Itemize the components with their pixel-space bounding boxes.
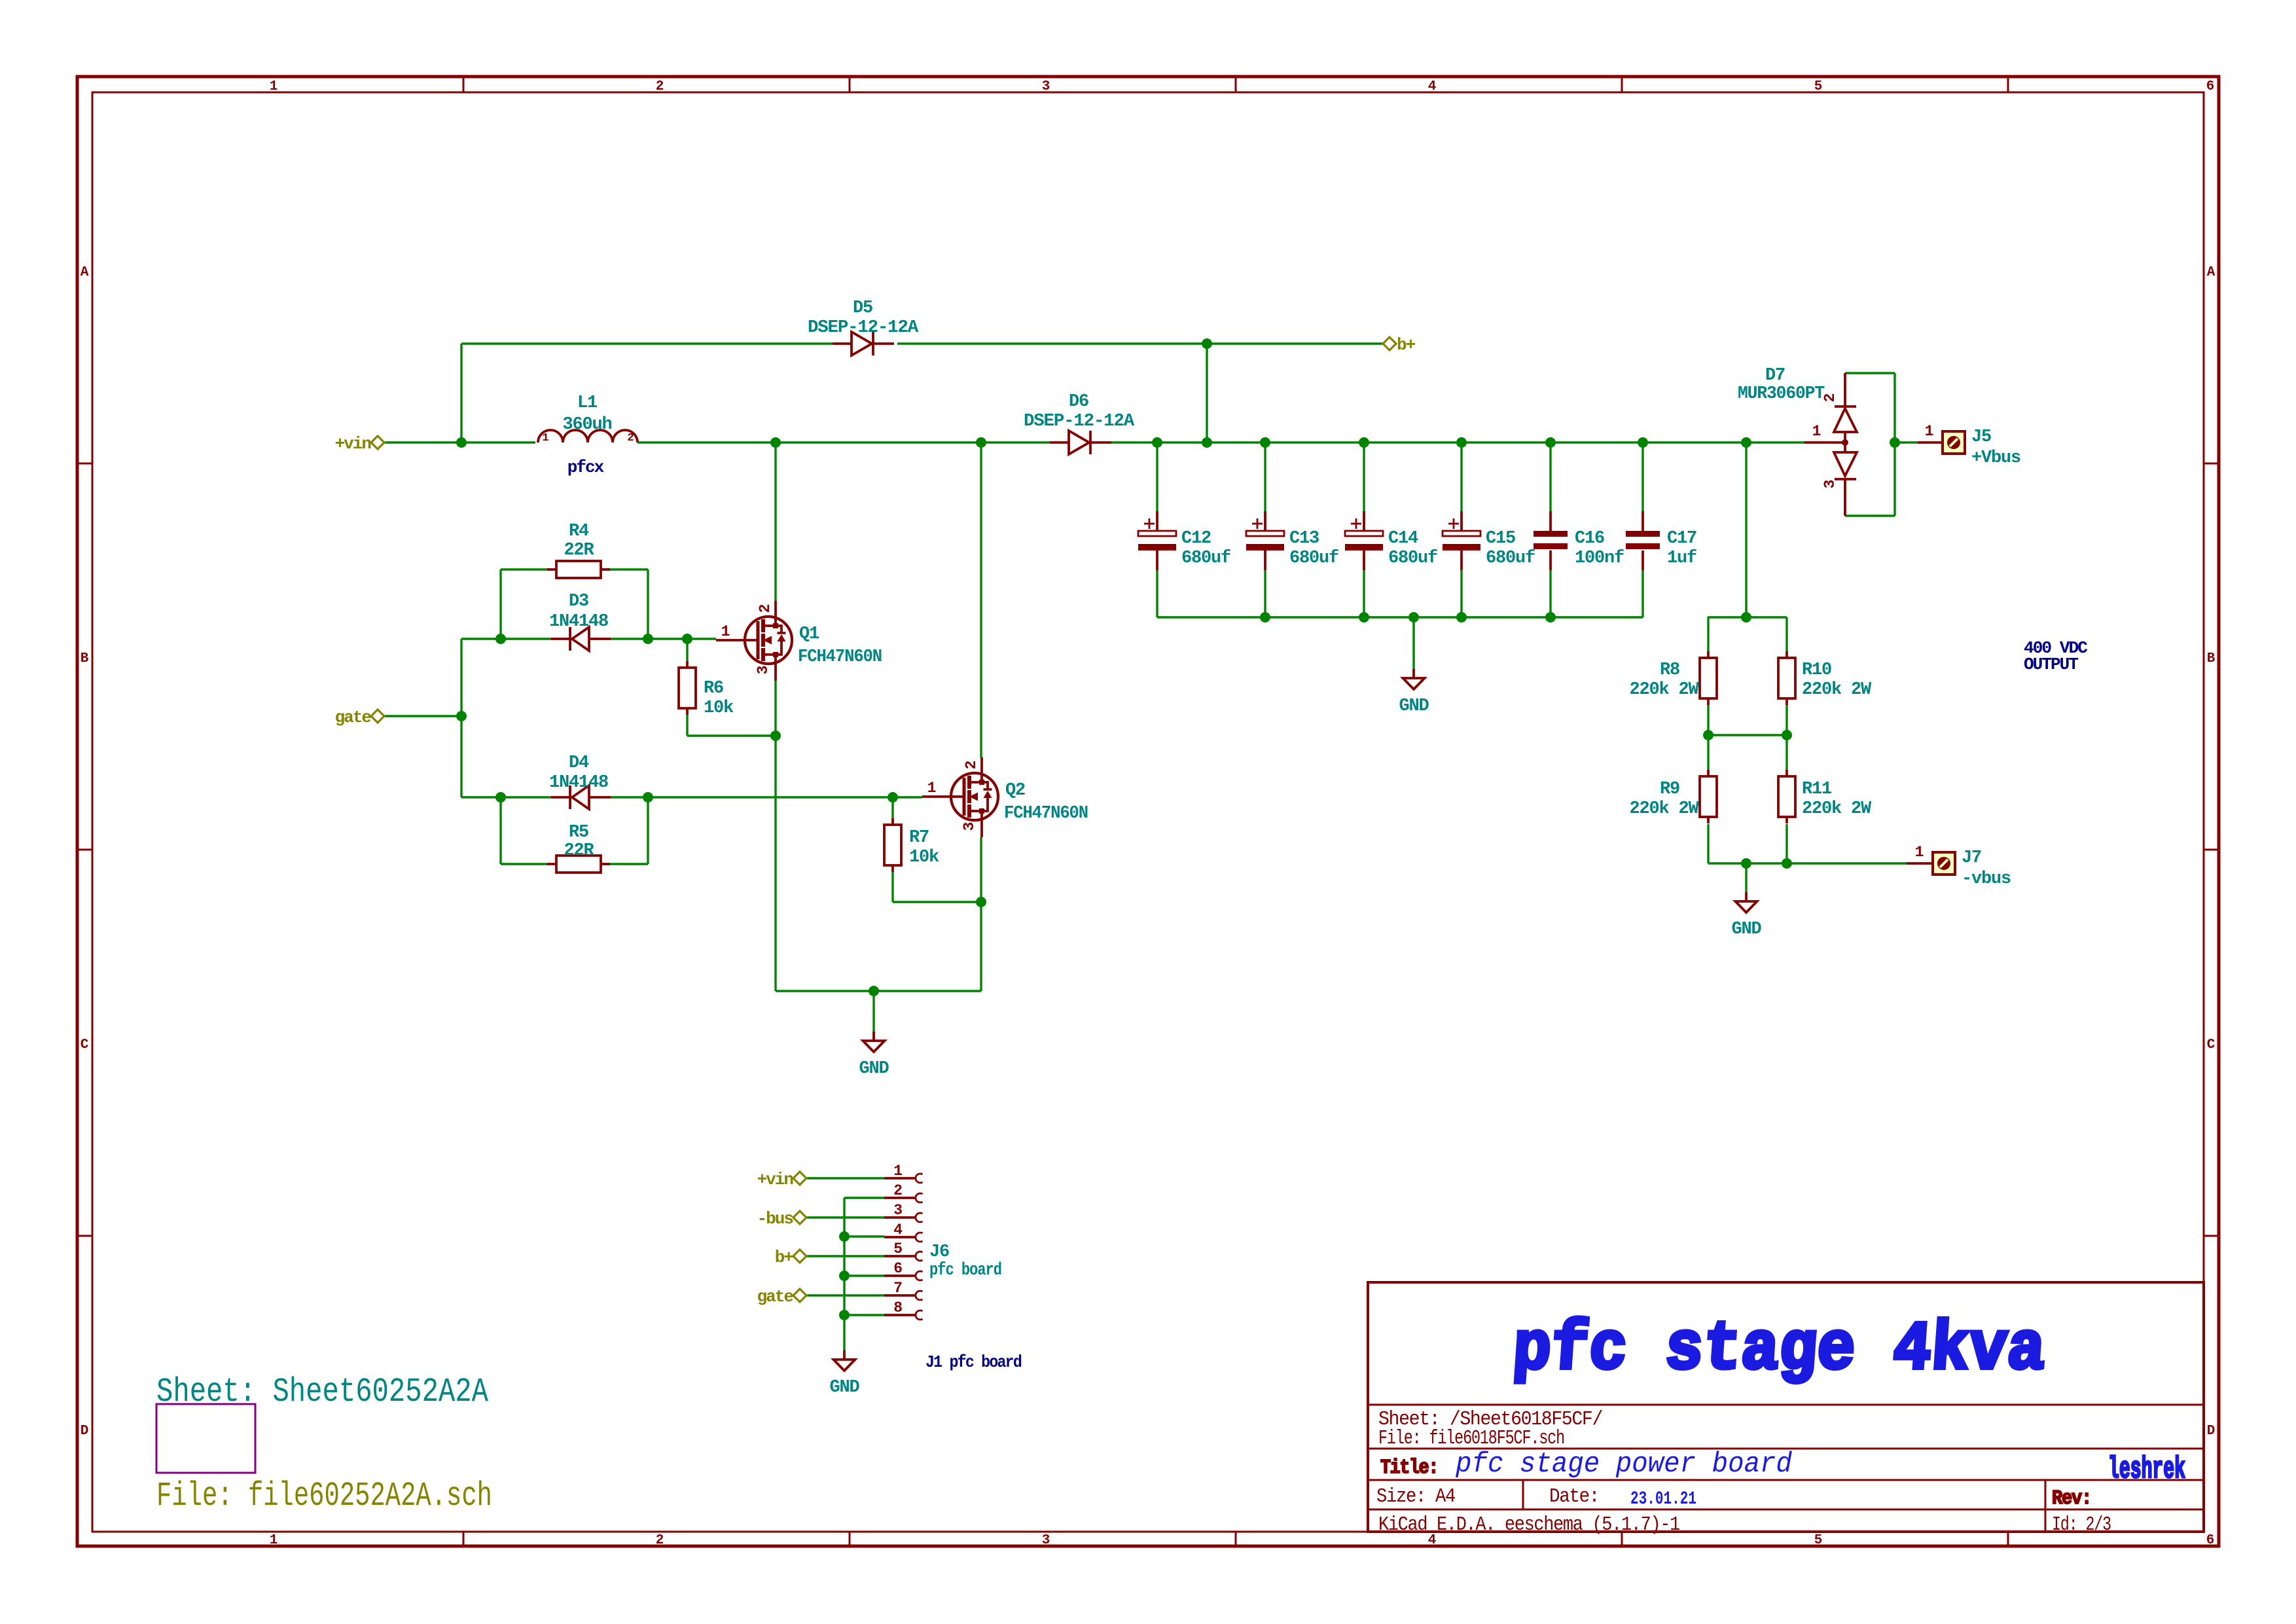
ground under divider (1736, 892, 1757, 912)
svg-text:Sheet: Sheet60252A2A: Sheet: Sheet60252A2A (156, 1373, 489, 1411)
svg-text:pfc stage power board: pfc stage power board (1455, 1448, 1792, 1481)
svg-text:Date:: Date: (1549, 1485, 1599, 1508)
connector J5 (1918, 431, 1965, 454)
wire R5 right lead (607, 863, 648, 865)
wire gate row 2 to D4 (461, 796, 551, 798)
svg-text:680uf: 680uf (1486, 549, 1535, 568)
global label gate (J6) (757, 1287, 806, 1307)
wire C bottom lead x=2084 (1363, 570, 1365, 617)
capacitor C13 (1246, 511, 1284, 570)
svg-text:Id: 2/3: Id: 2/3 (2052, 1513, 2111, 1536)
svg-text:220k 2W: 220k 2W (1802, 680, 1872, 700)
wire Q1 source down (774, 681, 776, 991)
diode D6 (1050, 431, 1111, 454)
ground under J6 (834, 1350, 855, 1371)
svg-text:4: 4 (1428, 79, 1437, 94)
junction main bus x=1499 (976, 437, 986, 448)
svg-text:C12: C12 (1181, 529, 1211, 549)
svg-text:1N4148: 1N4148 (549, 773, 608, 793)
wire +vin to J6 pin1 (806, 1177, 884, 1179)
J6 pin 6 (884, 1271, 923, 1280)
junction cap bottom rail x=2084 (1359, 612, 1369, 623)
svg-text:-bus: -bus (757, 1209, 794, 1229)
J6 pin 4 (884, 1233, 923, 1242)
wire divider bottom rail to J7 (1708, 862, 1907, 864)
svg-text:R4: R4 (569, 522, 589, 541)
svg-text:5: 5 (1814, 1533, 1823, 1548)
svg-text:Q2: Q2 (1005, 781, 1025, 801)
svg-text:A: A (2207, 265, 2215, 280)
svg-text:7: 7 (893, 1280, 902, 1297)
ground under capacitor bank (1403, 669, 1425, 689)
transistor Q2 (922, 757, 998, 837)
svg-text:leshrek: leshrek (2108, 1453, 2185, 1487)
wire R8 top lead (1707, 617, 1709, 651)
wire J6 pin2 lead (844, 1197, 884, 1199)
wire C top lead x=2084 (1363, 442, 1365, 511)
wire R6 top lead (686, 639, 688, 661)
diode D4 (551, 785, 611, 809)
capacitor C17 (1626, 511, 1660, 570)
svg-text:6: 6 (893, 1260, 902, 1277)
frame column tick x=708 bottom (463, 1532, 465, 1546)
wire R8 bottom lead (1707, 705, 1709, 735)
wire R9 bottom lead (1707, 824, 1709, 863)
wire gate label to rail (384, 715, 461, 717)
svg-text:b+: b+ (775, 1248, 794, 1267)
wire b+ rail left of D5 (461, 342, 833, 344)
resistor R10 (1778, 651, 1795, 705)
junction main bus x=2369 (1545, 437, 1556, 448)
global label b+ (1383, 335, 1416, 355)
junction R6 top node (682, 634, 692, 644)
svg-text:1: 1 (270, 79, 278, 94)
svg-text:DSEP-12-12A: DSEP-12-12A (808, 318, 919, 338)
svg-text:22R: 22R (564, 841, 594, 861)
svg-text:10k: 10k (909, 848, 939, 867)
svg-text:1: 1 (927, 780, 936, 797)
svg-text:gate: gate (335, 708, 372, 727)
wire +vin to L1 (384, 441, 535, 443)
svg-text:D5: D5 (853, 298, 872, 318)
svg-text:gate: gate (757, 1287, 794, 1307)
wire divider top rail (1708, 616, 1787, 618)
svg-text:2: 2 (656, 1533, 664, 1548)
wire R7 to Q2 source (893, 901, 981, 903)
svg-text:2: 2 (757, 604, 774, 613)
junction main bus x=705 (456, 437, 467, 448)
junction D7 output node (1890, 437, 1900, 448)
wire C bottom lead x=1933 (1264, 570, 1266, 617)
global label b+ (J6) (775, 1248, 806, 1267)
J6 pin 7 (884, 1291, 923, 1300)
wire L1 to D6 (637, 441, 1050, 443)
frame row tick y=1298 right (2204, 849, 2219, 851)
svg-text:Size: A4: Size: A4 (1376, 1485, 1456, 1508)
svg-text:C16: C16 (1575, 529, 1604, 549)
wire R4 left lead (501, 568, 550, 570)
svg-text:1: 1 (893, 1163, 902, 1180)
wire R11 bottom lead (1785, 824, 1787, 863)
svg-text:680uf: 680uf (1388, 549, 1437, 568)
junction J6 pin6 node (839, 1271, 850, 1281)
svg-text:3: 3 (893, 1202, 902, 1219)
wire R6 bottom lead (686, 715, 688, 736)
svg-text:D7: D7 (1765, 366, 1785, 386)
svg-text:pfcx: pfcx (567, 458, 604, 477)
svg-text:pfc stage 4kva: pfc stage 4kva (1511, 1310, 2048, 1389)
junction cap bottom rail x=1933 (1260, 612, 1270, 623)
svg-text:1: 1 (270, 1533, 278, 1548)
wire C top lead x=2233 (1460, 442, 1462, 511)
svg-text:MUR3060PT: MUR3060PT (1738, 384, 1825, 404)
frame row tick y=1298 left (77, 849, 92, 851)
svg-text:GND: GND (1731, 920, 1761, 939)
transistor Q1 (716, 601, 792, 681)
svg-text:R8: R8 (1660, 660, 1679, 680)
svg-text:22R: 22R (564, 541, 594, 560)
junction D4 left node (495, 792, 506, 803)
junction main bus x=1933 (1260, 437, 1270, 448)
svg-text:J7: J7 (1962, 848, 1981, 868)
junction source rail GND node (869, 986, 879, 996)
wire b+ to J6 pin5 (806, 1255, 884, 1257)
wire source rail to GND (776, 990, 981, 992)
svg-text:D: D (2207, 1424, 2215, 1439)
frame row tick y=708 left (77, 463, 92, 465)
svg-text:pfc board: pfc board (929, 1261, 1001, 1280)
svg-text:1N4148: 1N4148 (549, 612, 608, 632)
svg-text:OUTPUT: OUTPUT (2024, 655, 2078, 674)
junction main bus x=2233 (1456, 437, 1467, 448)
svg-text:3: 3 (961, 822, 978, 831)
svg-text:2: 2 (893, 1182, 902, 1199)
wire C bottom lead x=1768 (1156, 570, 1158, 617)
svg-text:-vbus: -vbus (1962, 869, 2011, 889)
wire R5 left lead (501, 863, 550, 865)
svg-text:GND: GND (829, 1378, 859, 1398)
svg-text:680uf: 680uf (1289, 549, 1338, 568)
svg-text:R11: R11 (1802, 780, 1832, 799)
frame column tick x=1888 top (1235, 77, 1237, 92)
svg-text:6: 6 (2206, 79, 2215, 94)
svg-text:J1 pfc board: J1 pfc board (925, 1352, 1021, 1372)
wire R4 right leg down (647, 569, 649, 639)
svg-text:3: 3 (1042, 79, 1050, 94)
wire C top lead x=1933 (1264, 442, 1266, 511)
svg-text:C: C (81, 1038, 89, 1053)
wire R7 top lead (891, 797, 893, 818)
junction divider mid left (1703, 730, 1713, 740)
capacitor C16 (1534, 511, 1568, 570)
frame column tick x=1298 top (849, 77, 851, 92)
junction main bus x=2668 (1741, 437, 1751, 448)
svg-text:Rev:: Rev: (2052, 1487, 2091, 1510)
junction gate label node (456, 711, 467, 721)
svg-text:A: A (81, 265, 89, 280)
resistor R4 (547, 561, 610, 578)
wire gate row 1 to D3 (461, 638, 551, 640)
svg-text:DSEP-12-12A: DSEP-12-12A (1024, 412, 1135, 431)
svg-text:5: 5 (1814, 79, 1823, 94)
svg-text:R5: R5 (569, 823, 588, 842)
junction divider bottom right node (1782, 858, 1792, 869)
wire D6 to D7 (1111, 441, 1804, 443)
resistor R9 (1700, 770, 1717, 823)
wire R5 right leg down (647, 797, 649, 864)
svg-text:6: 6 (2206, 1533, 2215, 1548)
global label +vin (main bus) (335, 434, 384, 454)
svg-text:1: 1 (542, 432, 548, 444)
connector J7 (1907, 852, 1955, 875)
svg-text:3: 3 (1821, 480, 1839, 488)
resistor R11 (1778, 770, 1795, 823)
frame row tick y=1888 left (77, 1235, 92, 1237)
wire D7 right loop (1893, 373, 1895, 516)
svg-text:3: 3 (755, 666, 772, 674)
wire Q2 source down (980, 837, 982, 991)
wire D7 to J5 (1895, 441, 1918, 443)
svg-text:+Vbus: +Vbus (1971, 448, 2020, 468)
wire capacitor bottom rail (1157, 616, 1643, 618)
global label +vin (J6) (757, 1170, 806, 1189)
junction divider bottom GND node (1741, 858, 1751, 869)
wire R4 left leg down (499, 569, 501, 639)
wire J6 pin8 lead (844, 1314, 884, 1316)
svg-text:220k 2W: 220k 2W (1802, 799, 1872, 819)
junction main bus x=1185 (770, 437, 781, 448)
wire D3 to Q1 gate (611, 638, 716, 640)
svg-text:R6: R6 (704, 679, 723, 698)
svg-text:b+: b+ (1397, 335, 1416, 355)
frame column tick x=3068 top (2007, 77, 2009, 92)
resistor R8 (1700, 651, 1717, 705)
svg-text:J6: J6 (929, 1242, 949, 1262)
svg-text:File: file6018F5CF.sch: File: file6018F5CF.sch (1378, 1427, 1564, 1450)
svg-text:GND: GND (1399, 696, 1429, 716)
wire bus drop to divider (1745, 442, 1747, 617)
wire GND stub under divider (1745, 863, 1747, 892)
junction R7 bottom node (976, 897, 986, 907)
wire C bottom lead x=2233 (1460, 570, 1462, 617)
diode D5 (833, 332, 894, 355)
J6 pin 3 (884, 1213, 923, 1222)
wire C top lead x=2510 (1641, 442, 1643, 511)
wire gate rail vertical (460, 639, 462, 797)
frame column tick x=2478 bottom (1621, 1532, 1623, 1546)
svg-text:1: 1 (1925, 423, 1933, 440)
wire D7 bottom loop (1845, 514, 1895, 516)
junction cap bottom rail x=2233 (1456, 612, 1467, 623)
frame row tick y=708 right (2204, 463, 2219, 465)
frame column tick x=1298 bottom (849, 1532, 851, 1546)
junction b+ rail tap (1202, 338, 1212, 349)
J6 pin 8 (884, 1310, 923, 1320)
svg-text:R7: R7 (909, 828, 929, 848)
svg-text:Title:: Title: (1380, 1456, 1438, 1479)
wire R10 top lead (1785, 617, 1787, 651)
wire R6 to Q1 source (687, 734, 776, 736)
junction main bus x=1768 (1152, 437, 1162, 448)
wire R5 left leg down (499, 797, 501, 864)
svg-text:10k: 10k (704, 698, 734, 718)
svg-text:D: D (81, 1424, 89, 1439)
svg-text:R10: R10 (1802, 660, 1831, 680)
J6 pin 5 (884, 1252, 923, 1261)
junction main bus x=2084 (1359, 437, 1369, 448)
svg-text:R9: R9 (1660, 780, 1679, 799)
svg-text:D3: D3 (569, 592, 588, 611)
wire R4 right lead (607, 568, 648, 570)
title block outline (1368, 1282, 2204, 1532)
svg-text:C: C (2207, 1038, 2215, 1053)
wire J6 pin6 lead (844, 1274, 884, 1276)
junction D3 right node (643, 634, 653, 644)
wire D4 to Q2 gate (611, 796, 922, 798)
wire C top lead x=2369 (1549, 442, 1551, 511)
svg-text:2: 2 (627, 432, 634, 444)
svg-text:220k 2W: 220k 2W (1629, 680, 1699, 700)
svg-text:D6: D6 (1069, 392, 1088, 412)
svg-text:B: B (81, 651, 89, 666)
frame column tick x=2478 top (1621, 77, 1623, 92)
wire D5 to b+ label (897, 342, 1384, 344)
svg-text:GND: GND (859, 1059, 889, 1079)
svg-text:Q1: Q1 (799, 624, 819, 644)
svg-text:23.01.21: 23.01.21 (1630, 1489, 1696, 1509)
svg-text:4: 4 (893, 1221, 903, 1238)
junction J6 pin8 node (839, 1310, 850, 1320)
svg-text:KiCad E.D.A. eeschema (5.1.7): KiCad E.D.A. eeschema (5.1.7)-1 (1378, 1513, 1680, 1536)
junction cap bottom rail x=2160 (1408, 612, 1419, 623)
svg-text:L1: L1 (577, 393, 598, 413)
svg-text:5: 5 (893, 1240, 902, 1257)
wire divider middle rail (1708, 734, 1787, 736)
frame row tick y=1888 right (2204, 1235, 2219, 1237)
wire GND stub under cap bank (1412, 617, 1414, 669)
wire C bottom lead x=2510 (1641, 570, 1643, 617)
wire R7 bottom lead (891, 872, 893, 902)
junction D3 left node (495, 634, 506, 644)
junction divider mid right (1782, 730, 1792, 740)
svg-text:360uh: 360uh (562, 415, 611, 435)
svg-text:220k 2W: 220k 2W (1629, 799, 1699, 819)
junction R7 top node (888, 792, 898, 803)
junction cap bottom rail x=2369 (1545, 612, 1556, 623)
wire C bottom lead x=2369 (1549, 570, 1551, 617)
svg-text:C14: C14 (1388, 529, 1418, 549)
ground under Q1/Q2 source rail (863, 1032, 885, 1052)
capacitor C15 (1443, 511, 1480, 570)
svg-text:File: file60252A2A.sch: File: file60252A2A.sch (156, 1477, 492, 1515)
svg-text:3: 3 (1042, 1533, 1050, 1548)
wire R10 bottom lead (1785, 705, 1787, 735)
resistor R7 (884, 818, 901, 872)
resistor R6 (679, 661, 696, 715)
resistor R5 (547, 856, 610, 873)
svg-text:FCH47N60N: FCH47N60N (798, 647, 882, 667)
wire bus to Q1 drain (774, 442, 776, 601)
svg-text:1: 1 (1812, 423, 1821, 440)
junction R6 bottom node (770, 731, 781, 741)
global label gate (335, 708, 384, 727)
svg-text:D4: D4 (569, 753, 589, 773)
svg-text:+vin: +vin (757, 1170, 794, 1189)
svg-text:1uf: 1uf (1667, 549, 1696, 568)
wire C top lead x=1768 (1156, 442, 1158, 511)
svg-text:100nf: 100nf (1575, 549, 1624, 568)
frame column tick x=708 top (463, 77, 465, 92)
diode D3 (551, 627, 611, 651)
wire b+ rail drop to main bus (460, 344, 462, 442)
capacitor C14 (1345, 511, 1383, 570)
svg-text:B: B (2207, 651, 2215, 666)
wire gate to J6 pin7 (806, 1294, 884, 1296)
svg-text:C15: C15 (1486, 529, 1515, 549)
svg-text:J5: J5 (1971, 427, 1991, 447)
J6 pin 1 (884, 1174, 923, 1183)
wire b+ rail to bus link (1206, 344, 1208, 442)
wire J6 pin4 lead (844, 1235, 884, 1237)
svg-text:C13: C13 (1289, 529, 1319, 549)
frame column tick x=1888 bottom (1235, 1532, 1237, 1546)
junction D4 right node (643, 792, 653, 803)
svg-text:2: 2 (963, 761, 980, 769)
svg-text:+vin: +vin (335, 434, 372, 454)
junction J6 pin4 node (839, 1231, 850, 1242)
wire R11 top lead (1785, 735, 1787, 770)
wire -bus to J6 pin3 (806, 1216, 884, 1218)
frame column tick x=3068 bottom (2007, 1532, 2009, 1546)
wire D7 top loop (1845, 372, 1895, 374)
svg-text:1: 1 (1915, 844, 1924, 861)
wire GND stub under Q1/Q2 (872, 991, 874, 1032)
wire J6 ground bus vertical (843, 1198, 845, 1350)
junction main bus x=2510 (1638, 437, 1648, 448)
svg-text:C17: C17 (1667, 529, 1696, 549)
diode D7 (1804, 373, 1857, 516)
inductor L1 (538, 430, 637, 442)
global label -bus (757, 1209, 806, 1229)
junction main bus x=1844 (1202, 437, 1212, 448)
svg-text:8: 8 (893, 1299, 902, 1316)
wire bus to Q2 drain (980, 442, 982, 757)
junction divider top node (1741, 612, 1751, 623)
svg-text:1: 1 (721, 623, 730, 640)
svg-text:2: 2 (656, 79, 664, 94)
capacitor C12 (1138, 511, 1176, 570)
hierarchical sheet box (156, 1404, 255, 1473)
wire R9 top lead (1707, 735, 1709, 770)
svg-text:FCH47N60N: FCH47N60N (1004, 804, 1088, 823)
svg-text:680uf: 680uf (1181, 549, 1230, 568)
J6 pin 2 (884, 1193, 923, 1202)
